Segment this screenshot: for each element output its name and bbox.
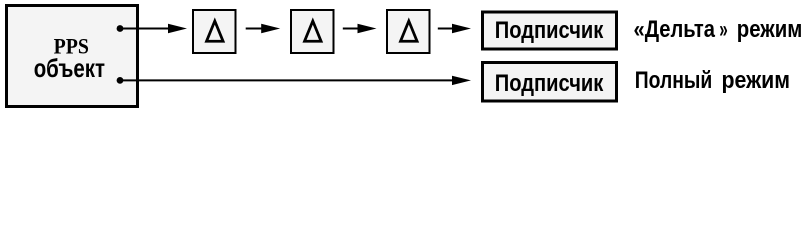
block delta2: [291, 10, 334, 53]
svg-text:»: »: [719, 16, 728, 43]
svg-text:Полный: Полный: [635, 67, 713, 94]
symbol delta3 triangle: [401, 21, 418, 41]
arrowhead wire PPS to delta1: [168, 24, 187, 33]
svg-text:режим: режим: [722, 67, 791, 94]
block delta3 frame: [387, 10, 430, 53]
wire PPS to subscriber2: [120, 79, 453, 81]
block delta1: [193, 10, 236, 53]
svg-text:«Дельта: «Дельта: [634, 16, 716, 43]
label full mode: Полный режим: [635, 67, 790, 94]
block delta3: [387, 10, 430, 53]
wire PPS to delta1: [120, 28, 169, 30]
label delta mode: «Дельта» режим: [634, 16, 803, 43]
arrowhead wire delta1 to delta2: [261, 24, 280, 33]
node dot top output of PPS: [117, 25, 124, 32]
block subscriber1 frame: [483, 12, 617, 49]
svg-text:режим: режим: [737, 16, 803, 43]
block delta2 frame: [291, 10, 334, 53]
wire delta1 to delta2: [246, 28, 262, 30]
symbol delta1 triangle: [207, 21, 224, 41]
symbol delta2 triangle: [305, 21, 322, 41]
svg-text:объект: объект: [34, 53, 106, 83]
svg-text:Подписчик: Подписчик: [495, 70, 604, 97]
wire delta2 to delta3: [343, 28, 358, 30]
svg-text:Подписчик: Подписчик: [495, 17, 604, 44]
block subscriber2 frame: [483, 63, 617, 102]
arrowhead wire delta2 to delta3: [358, 24, 377, 33]
node dot bottom output of PPS: [117, 77, 124, 84]
wire delta3 to subscriber1: [438, 28, 453, 30]
block delta1 frame: [193, 10, 236, 53]
block subscriber1: [483, 12, 617, 49]
block subscriber2: [483, 63, 617, 102]
arrowhead wire PPS to subscriber2: [452, 76, 471, 85]
arrowhead wire delta3 to subscriber1: [452, 24, 471, 33]
block PPS: source object: [7, 6, 138, 107]
block PPS frame: [7, 6, 138, 107]
